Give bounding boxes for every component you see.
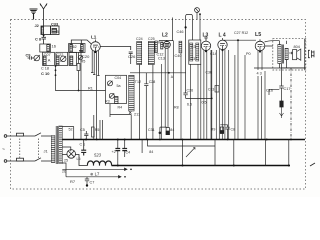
svg-text:25: 25 xyxy=(64,159,68,163)
svg-text:C 8: C 8 xyxy=(35,36,42,41)
svg-text:+2: +2 xyxy=(112,150,116,154)
svg-text:C26: C26 xyxy=(187,89,194,93)
svg-text:6.5: 6.5 xyxy=(187,103,192,107)
svg-text:C62: C62 xyxy=(70,45,77,49)
svg-text:L 4: L 4 xyxy=(219,33,226,39)
svg-text:C4: C4 xyxy=(126,151,131,155)
svg-text:C36: C36 xyxy=(206,71,212,75)
svg-text:C 18: C 18 xyxy=(41,66,49,70)
svg-text:C46: C46 xyxy=(177,30,184,34)
svg-text:R7: R7 xyxy=(70,179,76,184)
svg-text:C13: C13 xyxy=(158,57,165,61)
svg-text:C16: C16 xyxy=(266,89,273,93)
svg-text:P0: P0 xyxy=(246,52,251,56)
svg-text:R1: R1 xyxy=(88,87,93,91)
svg-text:~: ~ xyxy=(2,147,5,153)
svg-text:R4: R4 xyxy=(118,106,123,110)
svg-text:C5: C5 xyxy=(80,128,85,132)
svg-text:C17: C17 xyxy=(284,87,291,91)
svg-text:T12: T12 xyxy=(135,80,141,84)
svg-text:L6: L6 xyxy=(77,157,81,161)
svg-text:26: 26 xyxy=(62,169,66,173)
svg-text:C22: C22 xyxy=(56,53,63,57)
svg-text:C24: C24 xyxy=(136,37,143,41)
svg-text:A: A xyxy=(48,58,51,63)
svg-text:J1: J1 xyxy=(44,149,49,154)
svg-text:C 1: C 1 xyxy=(80,143,86,147)
svg-text:4 3: 4 3 xyxy=(257,72,262,76)
svg-text:16: 16 xyxy=(52,44,57,49)
svg-text:C04: C04 xyxy=(115,76,122,80)
svg-text:L3: L3 xyxy=(203,33,209,39)
svg-text:L5: L5 xyxy=(255,32,261,38)
svg-text:C14: C14 xyxy=(210,52,217,56)
svg-text:J2: J2 xyxy=(35,23,40,28)
svg-text:84: 84 xyxy=(170,128,174,132)
svg-text:C25: C25 xyxy=(148,37,155,41)
svg-text:804: 804 xyxy=(294,45,300,49)
svg-text:C33: C33 xyxy=(51,22,59,27)
svg-text:R9: R9 xyxy=(211,128,216,132)
svg-text:⊗ L7: ⊗ L7 xyxy=(90,172,100,177)
svg-text:R3: R3 xyxy=(105,100,110,104)
svg-text:C13: C13 xyxy=(208,88,214,92)
svg-text:0.5: 0.5 xyxy=(202,101,207,105)
svg-text:C27 R12: C27 R12 xyxy=(234,31,248,35)
svg-text:C 10: C 10 xyxy=(41,71,50,76)
svg-text:805: 805 xyxy=(53,30,59,34)
svg-text:C3: C3 xyxy=(191,45,196,49)
svg-text:84: 84 xyxy=(149,150,153,154)
svg-text:C26: C26 xyxy=(128,54,136,59)
svg-text:R8: R8 xyxy=(174,106,179,110)
svg-text:5a: 5a xyxy=(117,84,121,88)
svg-text:C9: C9 xyxy=(26,52,32,57)
svg-text:C40: C40 xyxy=(175,54,182,58)
svg-text:C20: C20 xyxy=(82,54,90,59)
svg-text:523: 523 xyxy=(94,153,102,158)
svg-text:L1: L1 xyxy=(91,35,97,40)
svg-text:R5: R5 xyxy=(95,128,100,132)
svg-text:C28: C28 xyxy=(149,80,156,84)
svg-text:C8: C8 xyxy=(231,128,236,132)
svg-text:C7: C7 xyxy=(90,181,95,185)
svg-text:L2: L2 xyxy=(162,33,168,39)
svg-text:52: 52 xyxy=(69,128,73,132)
svg-text:C31: C31 xyxy=(148,128,155,132)
svg-text:C37: C37 xyxy=(191,57,198,61)
svg-text:C07: C07 xyxy=(44,53,51,57)
